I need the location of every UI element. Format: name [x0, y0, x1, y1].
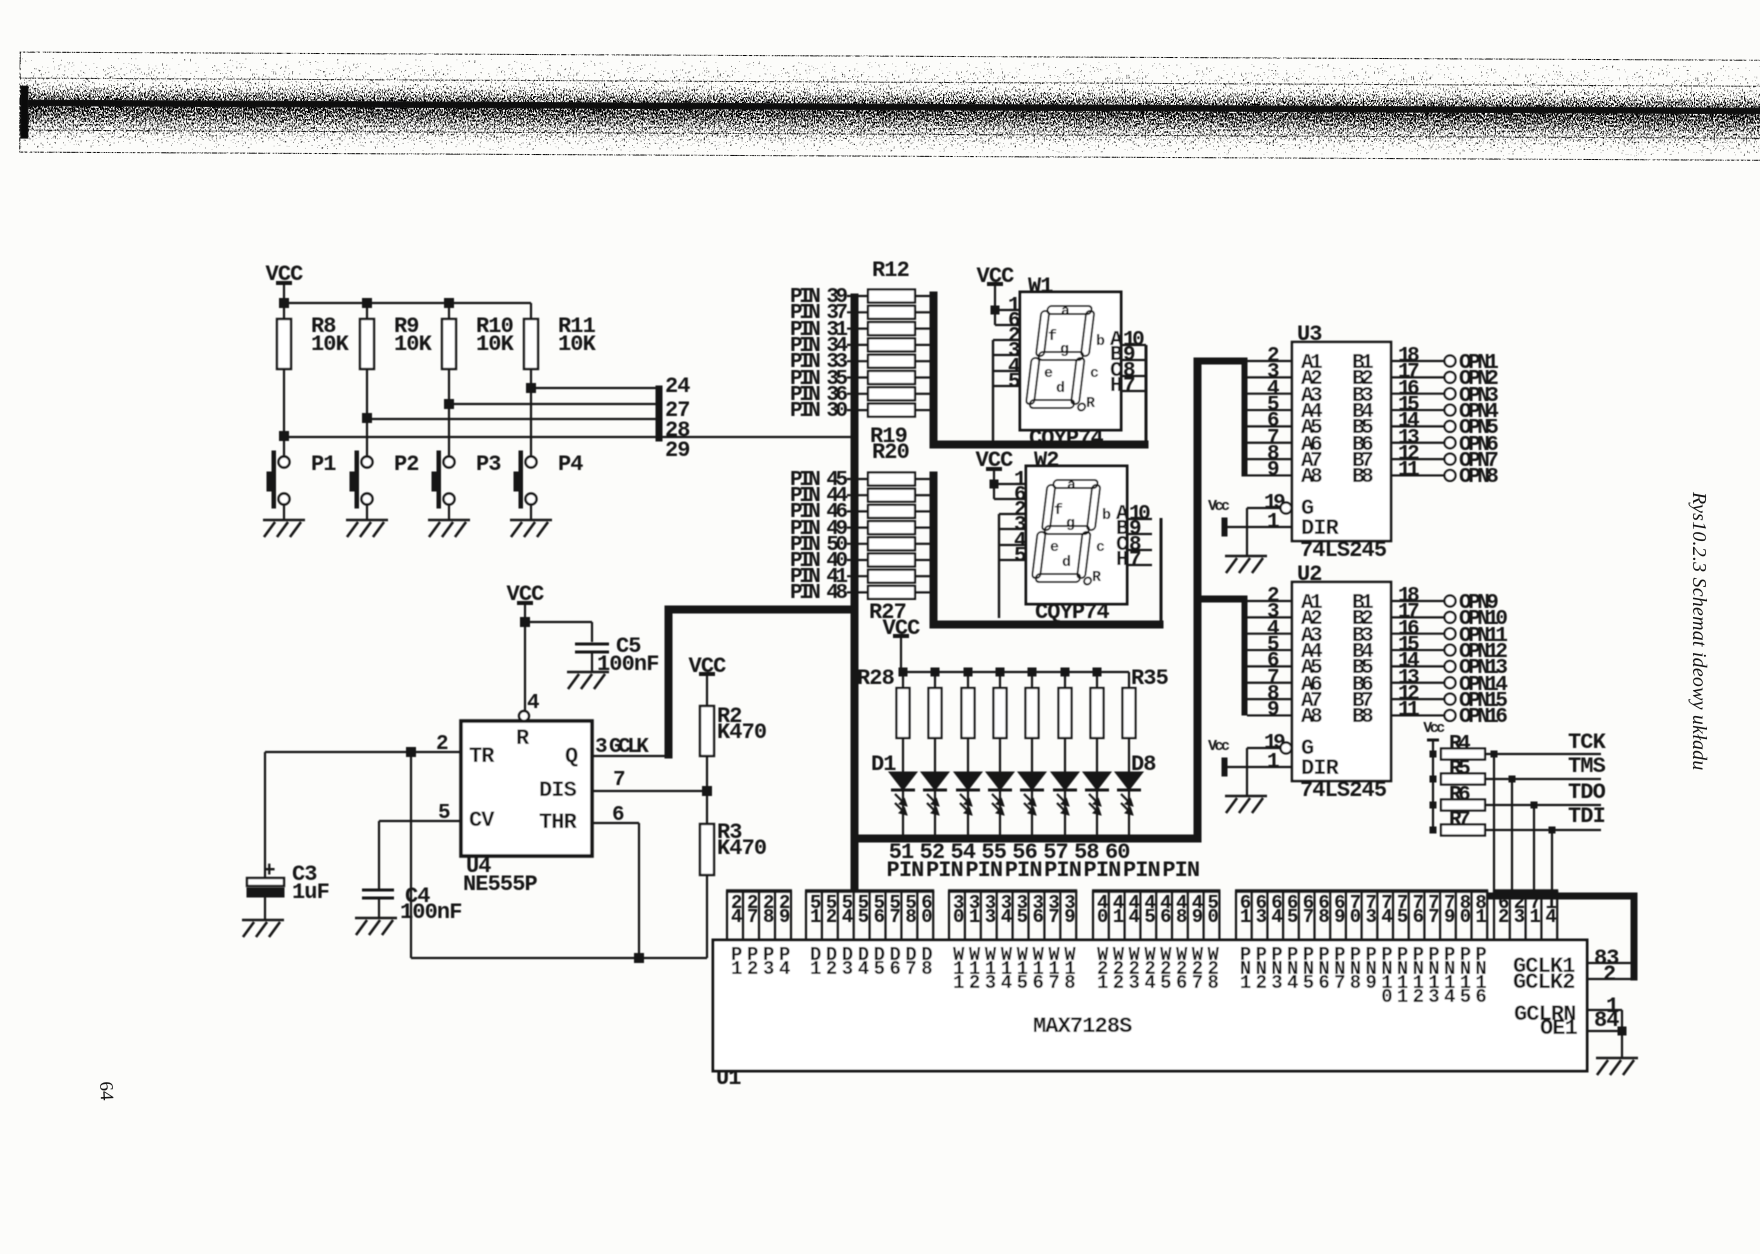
svg-text:24: 24: [665, 374, 690, 399]
resistor R32: [1031, 672, 1033, 688]
svg-text:7: 7: [1048, 906, 1059, 928]
svg-text:P1: P1: [311, 452, 336, 477]
U1 pin cell group G6 (pins 62..14): [1493, 889, 1558, 893]
wire: [448, 404, 450, 457]
svg-text:CV: CV: [469, 808, 495, 833]
svg-text:9: 9: [1267, 699, 1279, 722]
svg-text:1: 1: [1530, 906, 1541, 928]
svg-text:GCLK2: GCLK2: [1513, 970, 1575, 995]
capacitor C4 100nF: [362, 889, 394, 892]
resistor R10: [448, 303, 450, 319]
svg-text:4: 4: [1545, 906, 1556, 928]
svg-text:5: 5: [1008, 371, 1020, 394]
wire: [1533, 805, 1535, 895]
U1 pin cell group G5 (pins 61..81): [1235, 889, 1488, 893]
svg-text:9: 9: [1192, 906, 1203, 928]
svg-text:3: 3: [1256, 906, 1267, 928]
U1 pin cell group G2 (pins 51..60): [805, 889, 934, 893]
wire pins 2-5 bracket: [999, 513, 1026, 515]
output OPN5: [1445, 421, 1456, 432]
node junction: [1491, 751, 1497, 757]
svg-text:5: 5: [1287, 906, 1298, 928]
node junction: [363, 414, 372, 423]
wire: [1511, 779, 1513, 895]
svg-text:6: 6: [1032, 906, 1043, 928]
resistor R4: [1441, 749, 1485, 760]
svg-text:10K: 10K: [476, 332, 515, 357]
svg-text:8: 8: [763, 906, 774, 928]
wire: [1064, 790, 1066, 838]
output OPN15: [1445, 694, 1456, 705]
svg-text:0: 0: [1460, 906, 1471, 928]
wire net 29: [284, 436, 852, 438]
wire (TR/THR/C3 net): [411, 957, 707, 959]
svg-text:THR: THR: [539, 810, 578, 835]
output OPN16: [1445, 710, 1456, 721]
svg-text:55: 55: [981, 840, 1006, 865]
svg-text:R5: R5: [1449, 758, 1470, 781]
svg-text:4: 4: [1271, 906, 1282, 928]
svg-text:Q: Q: [565, 744, 578, 769]
svg-text:0: 0: [921, 906, 932, 928]
svg-text:4: 4: [1129, 906, 1140, 928]
node junction: [1618, 1027, 1626, 1035]
node junction: [1549, 827, 1555, 833]
svg-text:4: 4: [1381, 906, 1392, 928]
output OPN1: [1445, 356, 1456, 367]
resistor R35: [1128, 672, 1130, 688]
wire: [1551, 830, 1553, 895]
node junction: [899, 668, 907, 676]
svg-text:K470: K470: [717, 720, 766, 745]
wire net 24: [531, 387, 657, 389]
svg-text:5: 5: [1144, 906, 1155, 928]
svg-text:7: 7: [889, 906, 900, 928]
svg-text:5: 5: [1014, 545, 1026, 568]
svg-text:3: 3: [985, 906, 996, 928]
svg-text:PIN: PIN: [887, 858, 924, 883]
node junction: [1509, 776, 1515, 782]
wire pin6: [994, 310, 996, 325]
pushbutton P1: [279, 457, 290, 468]
7-segment digit glyph: [1025, 306, 1097, 411]
svg-text:10K: 10K: [311, 332, 350, 357]
resistor R30: [967, 672, 969, 688]
svg-text:7: 7: [1123, 375, 1135, 398]
svg-text:B8: B8: [1352, 706, 1373, 729]
svg-text:CQYP74: CQYP74: [1035, 600, 1110, 625]
bus right vertical (to U3/U2): [1194, 358, 1201, 842]
bus collector bar: [656, 386, 662, 441]
svg-text:R12: R12: [872, 258, 909, 283]
node junction: [407, 748, 416, 757]
svg-text:3: 3: [1514, 906, 1525, 928]
7-segment digit glyph: [1031, 480, 1103, 585]
bus U2 pin bracket: [1242, 596, 1247, 715]
resistor R9: [366, 303, 368, 319]
wire: [283, 504, 285, 520]
svg-text:4: 4: [842, 906, 853, 928]
resistor R5: [1441, 774, 1485, 785]
svg-text:0: 0: [1097, 906, 1108, 928]
wire: [530, 388, 532, 457]
node junction: [280, 432, 289, 441]
svg-text:PIN: PIN: [1162, 858, 1199, 883]
output OPN12: [1445, 645, 1456, 656]
svg-text:OE1: OE1: [1540, 1016, 1578, 1041]
node junction: [1531, 802, 1537, 808]
bus segment bank2 horizontal to W2: [930, 621, 1163, 628]
svg-text:9: 9: [1267, 459, 1279, 482]
svg-text:R28: R28: [857, 666, 895, 691]
wire: [366, 504, 368, 520]
svg-text:3: 3: [1365, 906, 1376, 928]
svg-text:R7: R7: [1449, 809, 1470, 832]
wire: [1128, 790, 1130, 838]
LED D3: [954, 772, 982, 790]
U1 pin cell group G4 (pins 40..50): [1092, 889, 1220, 893]
pushbutton P2: [362, 457, 373, 468]
svg-text:Vcc: Vcc: [1423, 720, 1445, 737]
svg-text:DIS: DIS: [539, 778, 577, 803]
svg-text:1uF: 1uF: [292, 880, 329, 905]
resistor R11: [530, 303, 532, 319]
wire pins 2-5 bracket: [993, 339, 1020, 341]
svg-text:PIN 30: PIN 30: [790, 400, 848, 423]
node junction: [1430, 827, 1436, 833]
node junction: [445, 299, 454, 308]
wire: [366, 418, 368, 457]
svg-text:OPN8: OPN8: [1459, 466, 1498, 489]
svg-text:Vcc: Vcc: [1208, 498, 1230, 515]
bus W2 right riser: [1160, 518, 1163, 624]
svg-text:11: 11: [1398, 699, 1419, 722]
CPLD U1 MAX7128S body: [713, 940, 1587, 1071]
ground: [567, 671, 609, 674]
bus GCLK horizontal: [665, 606, 856, 613]
svg-text:TMS: TMS: [1568, 754, 1606, 779]
node junction: [1061, 668, 1069, 676]
LED D1: [889, 772, 917, 790]
bus branch to U3: [1194, 358, 1247, 364]
wire LED rail: [901, 671, 1129, 673]
ground: [1225, 795, 1267, 798]
bus W1 right riser: [1145, 345, 1148, 444]
svg-text:74LS245: 74LS245: [1300, 538, 1387, 563]
svg-text:DIR: DIR: [1301, 756, 1340, 781]
svg-text:0: 0: [1208, 906, 1219, 928]
wire: [410, 752, 412, 958]
svg-text:R35: R35: [1131, 666, 1169, 691]
svg-text:B8: B8: [1352, 466, 1373, 489]
output OPN7: [1445, 454, 1456, 465]
svg-text:K470: K470: [717, 836, 766, 861]
wire pin1: [994, 483, 1026, 485]
ground: [263, 519, 305, 522]
resistor R31: [999, 672, 1001, 688]
svg-text:58: 58: [1074, 840, 1099, 865]
svg-text:9: 9: [1334, 906, 1345, 928]
bus main vertical (left): [851, 294, 858, 889]
svg-text:PIN 48: PIN 48: [790, 582, 848, 605]
svg-text:9: 9: [1444, 906, 1455, 928]
svg-text:1: 1: [1240, 906, 1251, 928]
output OPN4: [1445, 405, 1456, 416]
wire: [1493, 754, 1495, 895]
svg-text:TDO: TDO: [1568, 780, 1606, 805]
resistor R7: [1441, 825, 1485, 836]
svg-text:0: 0: [953, 906, 964, 928]
bus segment bank1 vertical: [930, 292, 937, 447]
svg-text:Vcc: Vcc: [1208, 738, 1230, 755]
ground: [355, 917, 397, 920]
wire net 28: [367, 418, 657, 420]
wire: [902, 790, 904, 838]
node junction: [1430, 802, 1436, 808]
output OPN11: [1445, 628, 1456, 639]
wire signal TDI: [1485, 829, 1601, 831]
svg-text:R20: R20: [872, 440, 909, 465]
svg-text:MAX7128S: MAX7128S: [1033, 1014, 1132, 1039]
svg-text:100nF: 100nF: [400, 900, 462, 925]
svg-text:5: 5: [858, 906, 869, 928]
wire: [999, 790, 1001, 838]
svg-text:6: 6: [1413, 906, 1424, 928]
svg-text:9: 9: [1064, 906, 1075, 928]
output OPN8: [1445, 470, 1456, 481]
ground: [1596, 1057, 1638, 1060]
LED D4: [986, 772, 1014, 790]
node junction: [521, 618, 530, 627]
wire pin6: [993, 484, 995, 499]
svg-text:74LS245: 74LS245: [1300, 778, 1387, 803]
svg-text:TDI: TDI: [1568, 804, 1605, 829]
output OPN3: [1445, 388, 1456, 399]
LED D7: [1083, 772, 1111, 790]
svg-text:8: 8: [1176, 906, 1187, 928]
svg-text:84: 84: [1594, 1008, 1619, 1033]
resistor R6: [1441, 800, 1485, 811]
wire pin1: [995, 309, 1020, 311]
wire: [1621, 1010, 1623, 1058]
LED D8: [1115, 772, 1143, 790]
wire: [967, 790, 969, 838]
svg-text:60: 60: [1105, 840, 1130, 865]
wire: [265, 751, 411, 753]
LED D6: [1051, 772, 1079, 790]
wire: [1096, 790, 1098, 838]
caption Rys10.2.3: [1674, 492, 1710, 832]
svg-text:U1: U1: [716, 1066, 741, 1091]
7-segment display W1 CQYP74: [1020, 292, 1121, 430]
wire: [283, 436, 285, 457]
bus LED frame bottom: [851, 835, 1201, 842]
node junction: [996, 668, 1004, 676]
svg-text:29: 29: [665, 438, 690, 463]
bus branch to U2: [1194, 596, 1247, 602]
bus GCLK vertical: [665, 606, 672, 758]
node junction: [1028, 668, 1036, 676]
wire: [934, 790, 936, 838]
output OPN14: [1445, 677, 1456, 688]
op-amp U4 NE555P timer: [461, 721, 592, 856]
svg-text:P2: P2: [394, 452, 419, 477]
wire net 27: [449, 403, 657, 405]
resistor R2 K470: [700, 706, 714, 756]
resistor R8: [283, 303, 285, 319]
svg-text:57: 57: [1043, 840, 1068, 865]
svg-text:TR: TR: [469, 744, 495, 769]
resistor R33: [1064, 672, 1066, 688]
svg-text:A8: A8: [1301, 466, 1322, 489]
bus top-right horizontal: [1487, 893, 1637, 899]
svg-text:10K: 10K: [558, 332, 597, 357]
svg-text:2: 2: [1603, 962, 1615, 987]
svg-text:5: 5: [1017, 906, 1028, 928]
wire signal TCK: [1485, 753, 1601, 755]
ground: [1225, 555, 1267, 558]
svg-text:6: 6: [1160, 906, 1171, 928]
svg-text:8: 8: [1318, 906, 1329, 928]
svg-text:0: 0: [1350, 906, 1361, 928]
svg-text:4: 4: [731, 906, 742, 928]
svg-text:4: 4: [527, 692, 539, 715]
output OPN13: [1445, 661, 1456, 672]
capacitor C5: [525, 621, 592, 623]
svg-text:7: 7: [1428, 906, 1439, 928]
LED D5: [1018, 772, 1046, 790]
output OPN9: [1445, 596, 1456, 607]
node junction: [964, 668, 972, 676]
U1 pin cell group G1 (pins 24..29): [726, 889, 792, 893]
svg-text:1: 1: [810, 906, 821, 928]
bus right-edge vertical to GCLK1: [1631, 893, 1637, 980]
svg-text:R6: R6: [1449, 784, 1470, 807]
bus segment bank2 vertical: [930, 472, 937, 627]
ground: [242, 919, 284, 922]
node junction: [445, 400, 454, 409]
svg-text:8: 8: [905, 906, 916, 928]
node junction: [363, 299, 372, 308]
wire: [448, 504, 450, 520]
svg-text:P4: P4: [558, 452, 583, 477]
node junction: [527, 384, 536, 393]
U1 pin cell group G3 (pins 30..39): [948, 889, 1077, 893]
resistor R34: [1096, 672, 1098, 688]
pushbutton P4: [526, 457, 537, 468]
svg-text:P3: P3: [476, 452, 501, 477]
ground: [510, 519, 552, 522]
wire signal TDO: [1485, 804, 1601, 806]
ground: [428, 519, 470, 522]
node junction: [990, 480, 998, 488]
node junction: [1093, 668, 1101, 676]
node junction: [1430, 776, 1436, 782]
svg-text:TCK: TCK: [1568, 730, 1607, 755]
svg-text:A8: A8: [1301, 706, 1322, 729]
svg-text:DIR: DIR: [1301, 516, 1340, 541]
node junction: [635, 954, 644, 963]
svg-text:7: 7: [747, 906, 758, 928]
svg-text:7: 7: [613, 769, 625, 792]
svg-text:11: 11: [1398, 459, 1419, 482]
svg-text:4: 4: [1001, 906, 1012, 928]
svg-text:7: 7: [1129, 549, 1141, 572]
page number 64: [94, 1081, 117, 1101]
svg-text:1: 1: [1475, 906, 1486, 928]
7-segment display W2 CQYP74: [1026, 466, 1127, 604]
svg-text:2: 2: [1498, 906, 1509, 928]
svg-text:R4: R4: [1449, 733, 1470, 756]
node junction: [1430, 751, 1436, 757]
svg-text:1: 1: [1113, 906, 1124, 928]
pushbutton P3: [444, 457, 455, 468]
output OPN6: [1445, 437, 1456, 448]
svg-text:NE555P: NE555P: [463, 872, 538, 897]
wire: [284, 302, 531, 304]
svg-text:6: 6: [874, 906, 885, 928]
svg-text:7: 7: [1303, 906, 1314, 928]
output OPN2: [1445, 372, 1456, 383]
node junction: [931, 668, 939, 676]
svg-text:1: 1: [969, 906, 980, 928]
wire: [530, 504, 532, 520]
svg-text:W1: W1: [1028, 274, 1053, 299]
node junction: [991, 306, 999, 314]
node junction: [703, 787, 712, 796]
node junction: [280, 299, 289, 308]
LED D2: [921, 772, 949, 790]
bus segment bank1 horizontal to W1: [930, 441, 1148, 448]
svg-text:5: 5: [1397, 906, 1408, 928]
wire: [1031, 790, 1033, 838]
wire signal TMS: [1485, 778, 1601, 780]
svg-text:9: 9: [779, 906, 790, 928]
resistor R29: [934, 672, 936, 688]
svg-text:56: 56: [1012, 840, 1037, 865]
resistor R28: [902, 672, 904, 688]
svg-text:2: 2: [826, 906, 837, 928]
resistor R3 K470: [700, 824, 714, 875]
output OPN10: [1445, 612, 1456, 623]
ground: [346, 519, 388, 522]
svg-text:R: R: [516, 726, 530, 751]
svg-text:OPN16: OPN16: [1459, 706, 1507, 729]
svg-text:10K: 10K: [394, 332, 433, 357]
svg-text:W2: W2: [1034, 448, 1059, 473]
bus U3 pin bracket: [1242, 358, 1247, 476]
